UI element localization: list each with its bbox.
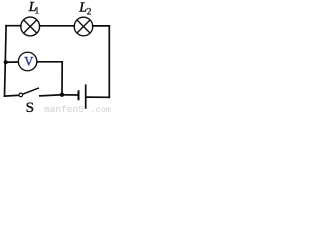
voltmeter V circle [18, 52, 36, 71]
wire: bottom left segment to switch pivot [5, 94, 21, 97]
lamp L1 [21, 17, 40, 36]
wire: voltmeter branch vertical down [61, 62, 63, 95]
wire: bottom segment junction to battery [62, 94, 78, 96]
svg-text:1: 1 [35, 6, 40, 16]
svg-text:.com: .com [91, 105, 111, 115]
svg-text:2: 2 [87, 7, 92, 17]
switch S blade [23, 88, 39, 94]
wire: bottom segment from switch contact to junction [40, 95, 62, 96]
wire: top middle segment between L1 and L2 [40, 25, 75, 27]
battery positive plate (long) [85, 84, 87, 108]
battery negative plate (short) [78, 90, 80, 100]
wire: left vertical [5, 26, 7, 96]
wire: top right segment from L2 to corner [93, 25, 110, 27]
wire: bottom segment battery to right corner [87, 96, 110, 98]
svg-text:S: S [26, 99, 34, 115]
switch S pivot [19, 93, 23, 97]
wire: top left segment to lamp L1 [6, 25, 21, 27]
lamp L2 [74, 17, 93, 36]
wire: voltmeter right lead [37, 61, 62, 63]
svg-text:manfen5: manfen5 [44, 104, 84, 115]
node: junction dot on bottom wire [60, 93, 64, 97]
wire: right vertical [108, 26, 110, 97]
node: junction dot on left wire [4, 60, 8, 64]
wire: voltmeter left lead [6, 61, 19, 63]
svg-text:V: V [24, 55, 33, 69]
